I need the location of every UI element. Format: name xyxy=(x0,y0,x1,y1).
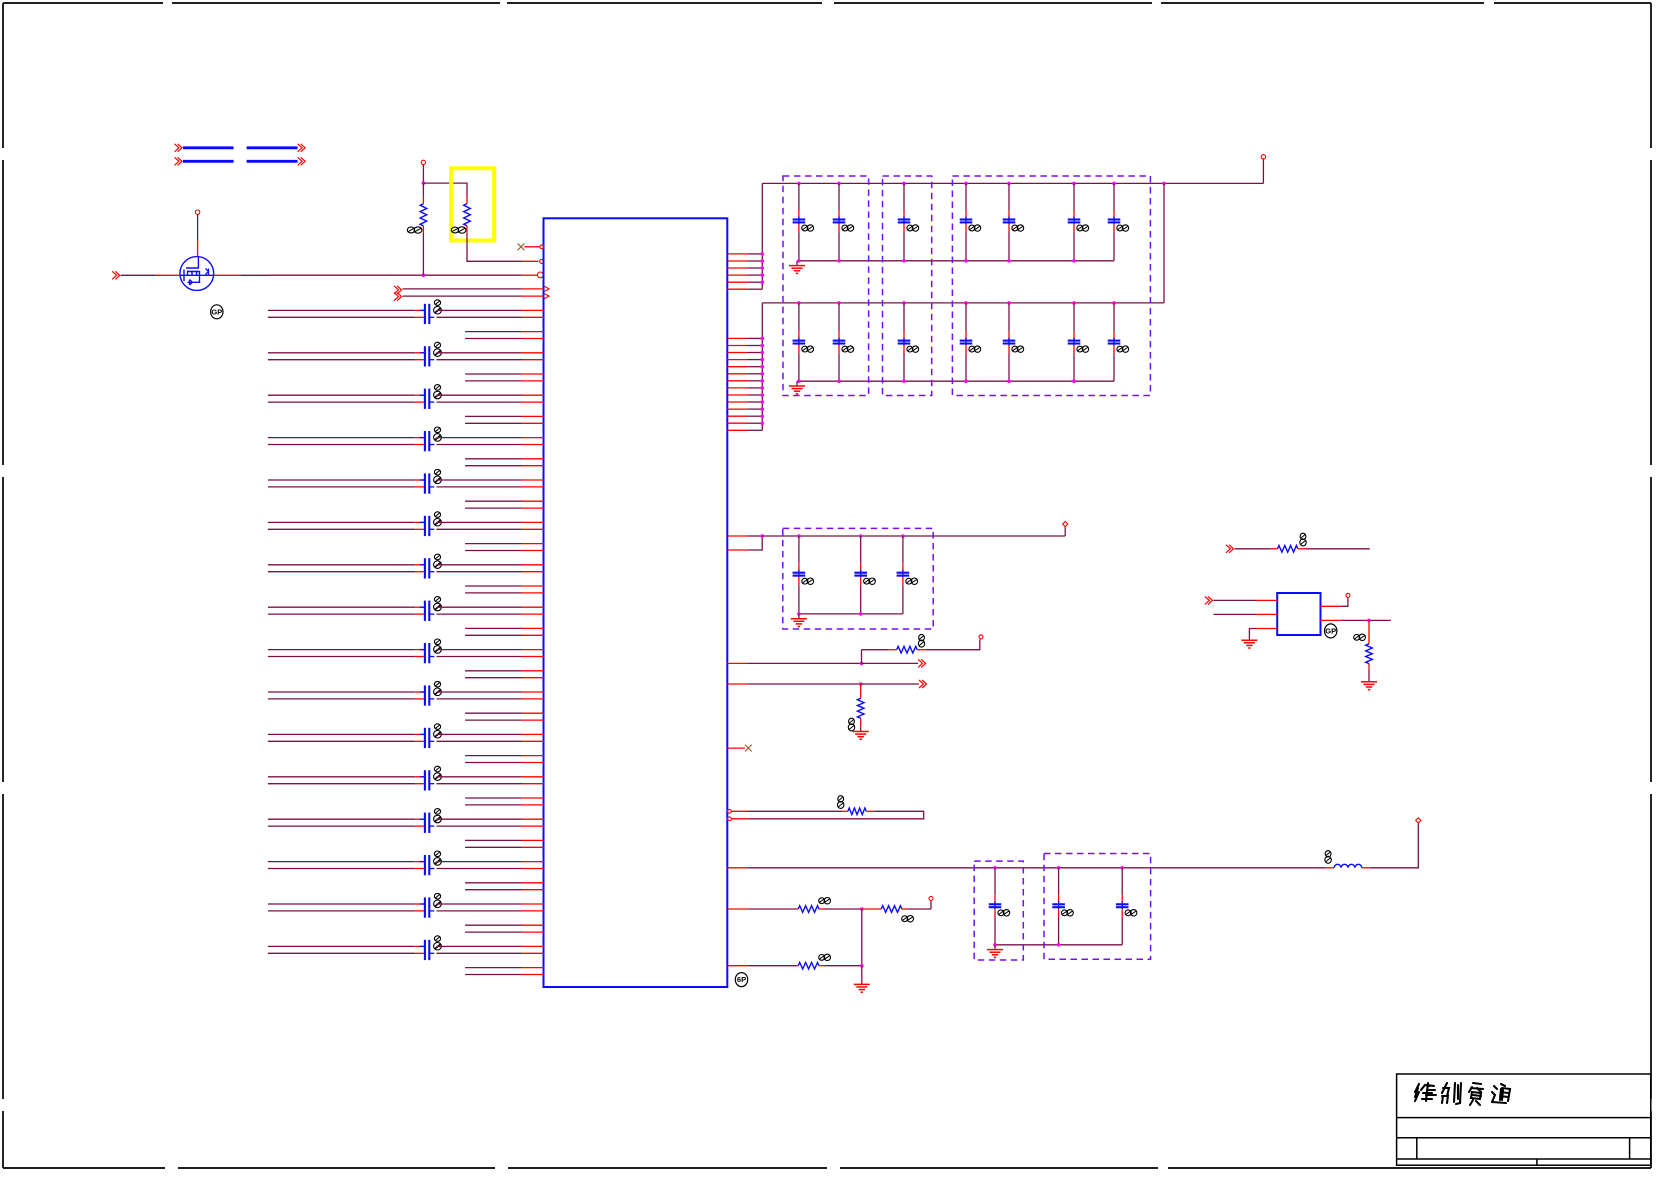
wire C11a left xyxy=(268,733,415,735)
net terminal U2 pin4 xyxy=(1346,593,1350,597)
wire C3a left xyxy=(268,394,415,396)
bus wire net B segment 1 xyxy=(183,160,234,163)
junction rail C43 xyxy=(1120,866,1124,870)
off-page arrow U2 pin1 xyxy=(1205,596,1209,604)
wire R3 to terminal xyxy=(926,639,980,649)
junction gnd rail row2 xyxy=(902,379,906,383)
bottom gnd rail xyxy=(995,944,1122,946)
junction ladder1 xyxy=(761,280,765,284)
capacitor C16 (top bank row1) xyxy=(1068,218,1081,220)
wire C8b right to IC xyxy=(437,613,522,615)
label C10 (crossed) xyxy=(434,681,440,687)
junction mid rail xyxy=(760,534,764,538)
capacitor C33 (mid bank) xyxy=(897,572,910,574)
wire into Q1 gate xyxy=(121,274,156,276)
wire C1b left xyxy=(268,316,415,318)
wire C13a right to IC xyxy=(437,818,522,820)
net terminal L1 xyxy=(1416,818,1421,823)
IC U1 main block xyxy=(544,218,728,987)
off-page arrow into Q1 gate xyxy=(112,271,116,279)
wire R2 bottom to IC pin 2 xyxy=(467,233,522,261)
IC right pin net S4 xyxy=(727,965,748,967)
label C11 (crossed) xyxy=(802,225,808,231)
wire rail2 down to C24 xyxy=(965,303,967,332)
junction gnd rail row2 xyxy=(797,379,801,383)
net terminal R3 xyxy=(979,635,983,639)
junction ladder2 xyxy=(761,358,765,362)
label C13 (crossed) xyxy=(907,225,913,231)
junction ladder2 xyxy=(761,400,765,404)
stub wire pair 13a to IC xyxy=(465,839,521,841)
label GP bottom xyxy=(735,973,747,987)
wire C10b right to IC xyxy=(437,698,522,700)
wire C7a left xyxy=(268,564,415,566)
stub wire pair 10a to IC xyxy=(465,712,521,714)
stub wire pair 7b to IC xyxy=(465,592,521,594)
capacitor C31 (mid bank) xyxy=(793,572,806,574)
junction gnd rail row1 xyxy=(837,259,841,263)
label C12 (crossed) xyxy=(842,225,848,231)
resistor R3 xyxy=(862,649,889,651)
wire C25 down to gnd rail xyxy=(1008,346,1010,354)
label C43 (crossed) xyxy=(1125,910,1131,916)
wire U2 pin3 to ground xyxy=(1256,628,1277,630)
wire C3b right to IC xyxy=(437,401,522,403)
wire rail down to C41 xyxy=(994,868,996,896)
wire C6b left xyxy=(268,528,415,530)
wire C23 down to gnd rail xyxy=(903,346,905,354)
capacitor C9 (dual coupling cap) xyxy=(424,643,426,663)
IC right pin group2-12 xyxy=(727,415,747,417)
label C33 (crossed) xyxy=(906,578,912,584)
pin bubble (IC left pin 3) xyxy=(537,272,543,278)
junction ladder2 xyxy=(761,407,765,411)
junction rail1 C11 xyxy=(797,182,801,186)
label C42 (crossed) xyxy=(1062,910,1068,916)
junction rail2 C27 xyxy=(1112,301,1116,305)
no-connect X pin (IC right) xyxy=(727,747,745,749)
label L1 (crossed) xyxy=(1325,851,1331,857)
wire rail1 down to C13 xyxy=(903,183,905,210)
wire C24 down to gnd rail xyxy=(965,346,967,354)
label C15 (crossed) xyxy=(1012,225,1018,231)
wire C14b left xyxy=(268,868,415,870)
wire C41 down xyxy=(994,909,996,917)
capacitor C24 (top bank row2) xyxy=(960,340,973,342)
wire C13b right to IC xyxy=(437,825,522,827)
wire C8a right to IC xyxy=(437,606,522,608)
IC right pin group2-10 xyxy=(727,401,747,403)
junction mid rail C33 xyxy=(901,534,905,538)
wire node T to R2 top xyxy=(423,183,467,196)
junction ladder2 xyxy=(761,393,765,397)
junction mid rail C31 xyxy=(797,534,801,538)
ground (mid bank) xyxy=(798,614,800,619)
wire C15b right to IC xyxy=(437,910,522,912)
capacitor C16 (dual coupling cap) xyxy=(424,940,426,960)
label C15 (crossed) xyxy=(434,893,440,899)
stub wire pair 15a to IC xyxy=(465,924,521,926)
wire C11 down to gnd rail xyxy=(798,224,800,232)
junction rail1 C13 xyxy=(902,182,906,186)
wire into U2 pin1 xyxy=(1213,599,1256,601)
junction ladder2 xyxy=(761,344,765,348)
junction gnd rail row1 xyxy=(1007,259,1011,263)
IC right pin group2-6 xyxy=(727,373,747,375)
wire terminal to node T xyxy=(422,165,424,184)
wire C13b left xyxy=(268,825,415,827)
wire C2a right to IC xyxy=(437,352,522,354)
capacitor C27 (top bank row2) xyxy=(1108,340,1121,342)
label R6 (crossed) xyxy=(819,898,825,904)
wire C10a right to IC xyxy=(437,691,522,693)
dashed group box A (bottom) xyxy=(974,861,1023,960)
wire C9b left xyxy=(268,656,415,658)
wire C2b right to IC xyxy=(437,359,522,361)
IC right pin group1-5 xyxy=(727,281,747,283)
wire into IC pin 5 xyxy=(403,295,522,297)
stub wire pair 11a to IC xyxy=(465,755,521,757)
wire Q1 drain to terminal xyxy=(197,214,199,240)
stub wire pair 8a to IC xyxy=(465,627,521,629)
net terminal mid rail xyxy=(1063,522,1068,527)
stub wire pair 16a to IC xyxy=(465,967,521,969)
resistor R7 xyxy=(862,908,881,910)
label C11 (crossed) xyxy=(434,724,440,730)
IC right pin group2-14 xyxy=(727,429,747,431)
capacitor C15 (dual coupling cap) xyxy=(424,897,426,917)
wire mid rail down to C32 xyxy=(860,536,862,564)
junction rail2 C24 xyxy=(964,301,968,305)
stub wire pair 13b to IC xyxy=(465,846,521,848)
ground (bottom bank) xyxy=(994,945,996,950)
label C13 (crossed) xyxy=(434,809,440,815)
mid power rail xyxy=(762,535,1065,537)
label C9 (crossed) xyxy=(434,639,440,645)
wire rail1 down to C12 xyxy=(838,183,840,210)
wire C31 down to gnd rail xyxy=(798,578,800,586)
IC right pin group2-4 xyxy=(727,359,747,361)
wire C11b right to IC xyxy=(437,740,522,742)
capacitor C4 (dual coupling cap) xyxy=(424,431,426,451)
stub wire pair 3b to IC xyxy=(465,422,521,424)
net terminal above Q1 xyxy=(195,210,199,214)
pin arrow glyph pin 5 xyxy=(545,294,550,299)
wire C16b left xyxy=(268,952,415,954)
ground rail row2 xyxy=(797,380,1114,382)
junction rail2 C22 xyxy=(837,301,841,305)
capacitor C1 (dual coupling cap) xyxy=(424,304,426,324)
capacitor C6 (dual coupling cap) xyxy=(424,516,426,536)
IC right pin group1-1 xyxy=(727,253,747,255)
bus wire net A segment 1 xyxy=(183,146,234,149)
wire C1a right to IC xyxy=(437,309,522,311)
junction gnd rail row2 xyxy=(1007,379,1011,383)
wire rail down to C43 xyxy=(1121,868,1123,896)
label C24 (crossed) xyxy=(969,346,975,352)
label R5 (crossed) xyxy=(838,796,844,802)
wire S3mid down to S4 xyxy=(861,909,863,966)
junction gnd rail row2 xyxy=(964,379,968,383)
resistor R9 xyxy=(1235,548,1272,550)
wire mid rail down to C31 xyxy=(798,536,800,564)
junction rail2 C26 xyxy=(1072,301,1076,305)
capacitor C7 (dual coupling cap) xyxy=(424,558,426,578)
junction rail2 C23 xyxy=(902,301,906,305)
label R8 (crossed) xyxy=(819,955,825,961)
wire C9a left xyxy=(268,649,415,651)
IC right pin group1-3 xyxy=(727,267,747,269)
capacitor C8 (dual coupling cap) xyxy=(424,601,426,621)
wire rail2 down to C22 xyxy=(838,303,840,332)
stub wire pair 15b to IC xyxy=(465,931,521,933)
bus wire net A segment 2 xyxy=(247,146,298,149)
junction gnd rail row2 xyxy=(837,379,841,383)
resistor R5 xyxy=(842,810,848,812)
transistor Q1 (MOSFET, circled) xyxy=(180,257,214,291)
wire R7 to terminal xyxy=(930,901,932,909)
wire loop right return xyxy=(748,811,924,819)
wire C7b right to IC xyxy=(437,571,522,573)
IC right pin power rail bottom xyxy=(727,867,747,869)
wire C15b left xyxy=(268,910,415,912)
label C3 (crossed) xyxy=(434,385,440,391)
wire S1 up to R3 xyxy=(861,650,863,664)
IC right pin mid-1 xyxy=(727,535,747,537)
wire U2 pin5 xyxy=(1321,619,1341,621)
resistor R8 xyxy=(797,965,798,967)
ground net S4 xyxy=(854,983,870,985)
wire C17 down to gnd rail xyxy=(1113,224,1115,232)
wire rail2 down to C25 xyxy=(1008,303,1010,332)
title block xyxy=(1397,1074,1651,1165)
wire R1 bottom to node R1bot xyxy=(422,233,424,275)
wire C14b right to IC xyxy=(437,868,522,870)
label C1 (crossed) xyxy=(434,300,440,306)
junction ladder2 xyxy=(761,379,765,383)
wire C43 down xyxy=(1121,909,1123,917)
stub wire pair 2a to IC xyxy=(465,373,521,375)
junction rail2 C25 xyxy=(1007,301,1011,305)
mid ground rail xyxy=(799,613,903,615)
svg-text:6P: 6P xyxy=(737,975,746,984)
dashed group box B (bottom) xyxy=(1044,854,1151,960)
label GP for U2 xyxy=(1325,624,1337,638)
wire rail2 down to C21 xyxy=(798,303,800,332)
stub wire pair 16b to IC xyxy=(465,974,521,976)
junction rail1 C12 xyxy=(837,182,841,186)
junction ladder1 xyxy=(761,266,765,270)
stub wire pair 4b to IC xyxy=(465,465,521,467)
label C22 (crossed) xyxy=(842,346,848,352)
label C8 (crossed) xyxy=(434,597,440,603)
dashed group box 1 (top bank) xyxy=(783,176,869,396)
wire rail1 down to C17 xyxy=(1113,183,1115,210)
net terminal R7 xyxy=(929,897,933,901)
capacitor C22 (top bank row2) xyxy=(833,340,846,342)
bus off-page connector net B (right arrow) xyxy=(298,157,302,165)
junction U2 pin5 net xyxy=(1367,619,1371,623)
resistor R2 (in yellow box) xyxy=(466,197,468,204)
wire C4b left xyxy=(268,444,415,446)
wire C11a right to IC xyxy=(437,733,522,735)
wire C22 down to gnd rail xyxy=(838,346,840,354)
wire rail down to C42 xyxy=(1058,868,1060,896)
junction mid rail C32 xyxy=(859,534,863,538)
IC right pin net S2 xyxy=(727,683,747,685)
label C16 (crossed) xyxy=(1077,225,1083,231)
ground (top bank row2) xyxy=(796,381,798,386)
wire C4a right to IC xyxy=(437,437,522,439)
stub wire pair 14a to IC xyxy=(465,882,521,884)
wire C14a right to IC xyxy=(437,861,522,863)
capacitor C43 (bottom bank) xyxy=(1116,903,1129,905)
wire C4a left xyxy=(268,437,415,439)
label C16 (crossed) xyxy=(434,936,440,942)
label C23 (crossed) xyxy=(907,346,913,352)
label C27 (crossed) xyxy=(1117,346,1123,352)
capacitor C13 (dual coupling cap) xyxy=(424,813,426,833)
label C4 (crossed) xyxy=(434,427,440,433)
junction rail C41 xyxy=(993,866,997,870)
label C14 (crossed) xyxy=(969,225,975,231)
no-connect X pin (IC left pin 1) xyxy=(518,243,525,250)
junction rail1 C17 xyxy=(1112,182,1116,186)
stub wire pair 5b to IC xyxy=(465,507,521,509)
wire C15 down to gnd rail xyxy=(1008,224,1010,232)
stub wire pair 12b to IC xyxy=(465,804,521,806)
label C14 (crossed) xyxy=(434,851,440,857)
wire C8b left xyxy=(268,613,415,615)
junction ladder2 xyxy=(761,414,765,418)
resistor R1 xyxy=(422,183,424,197)
junction node T xyxy=(422,181,426,185)
junction gnd rail row2 xyxy=(1072,379,1076,383)
IC right pin group2-13 xyxy=(727,422,747,424)
dashed group box (mid bank) xyxy=(783,528,933,629)
label R4 (crossed) xyxy=(849,718,855,724)
ground rail row1 xyxy=(797,260,1114,262)
wire rail2 down to C26 xyxy=(1073,303,1075,332)
company name text 緯創資通 (drawn strokes) xyxy=(1415,1083,1432,1101)
junction rail1 C16 xyxy=(1072,182,1076,186)
wire C7b left xyxy=(268,571,415,573)
wire into IC pin 4 xyxy=(403,288,522,290)
wire C2a left xyxy=(268,352,415,354)
wire C5b right to IC xyxy=(437,486,522,488)
svg-text:GP: GP xyxy=(211,307,222,316)
stub wire pair 8b to IC xyxy=(465,634,521,636)
junction gnd rail row1 xyxy=(902,259,906,263)
vertical ladder bus group1 xyxy=(761,183,763,289)
inductor L1 xyxy=(1326,867,1334,869)
junction gnd rail row1 xyxy=(1072,259,1076,263)
wire rail1 to terminal xyxy=(1262,159,1264,183)
junction ladder2 xyxy=(761,386,765,390)
ground R4 xyxy=(853,731,869,733)
capacitor C2 (dual coupling cap) xyxy=(424,346,426,366)
svg-text:GP: GP xyxy=(1325,627,1336,636)
wire C3a right to IC xyxy=(437,394,522,396)
dashed group box 2 (top bank) xyxy=(883,176,932,396)
capacitor C13 (top bank row1) xyxy=(898,218,911,220)
label C5 (crossed) xyxy=(434,469,440,475)
wire C16 down to gnd rail xyxy=(1073,224,1075,232)
wire C21 down to gnd rail xyxy=(798,346,800,354)
pin arrow glyph pin 4 xyxy=(545,286,550,291)
capacitor C12 (top bank row1) xyxy=(833,218,846,220)
capacitor C10 (dual coupling cap) xyxy=(424,685,426,705)
wire C42 down xyxy=(1058,909,1060,917)
stub wire pair 9a to IC xyxy=(465,670,521,672)
capacitor C21 (top bank row2) xyxy=(793,340,806,342)
wire mid rail down to C33 xyxy=(902,536,904,564)
ground U2 pin3 xyxy=(1241,639,1257,641)
stub wire pair 5a to IC xyxy=(465,500,521,502)
junction ladder2 xyxy=(761,365,765,369)
capacitor C42 (bottom bank) xyxy=(1052,903,1065,905)
IC right pin group2-3 xyxy=(727,352,747,354)
wire C1a left xyxy=(268,309,415,311)
capacitor C23 (top bank row2) xyxy=(898,340,911,342)
wire rail1 down to C14 xyxy=(965,183,967,210)
IC right pin group1-6 xyxy=(727,288,747,290)
label R3 (crossed) xyxy=(919,634,925,640)
capacitor C32 (mid bank) xyxy=(854,572,867,574)
wire S4 down to ground xyxy=(861,966,863,985)
wire node R1bot to IC pin xyxy=(268,274,423,276)
wire rail2 down to C27 xyxy=(1113,303,1115,332)
junction ladder2 xyxy=(761,351,765,355)
pin bubble loop top xyxy=(728,809,732,813)
stub wire pair 6b to IC xyxy=(465,550,521,552)
bus wire net B segment 2 xyxy=(247,160,298,163)
ground (top bank row1) xyxy=(796,261,798,266)
bus off-page connector net A (left arrow) xyxy=(175,144,179,152)
IC right pin group1-2 xyxy=(727,260,747,262)
junction gnd rail row1 xyxy=(964,259,968,263)
power rail row2 (rail2) xyxy=(762,302,1164,304)
label C21 (crossed) xyxy=(802,346,808,352)
wire into U2 pin2 xyxy=(1213,613,1256,615)
junction rail1 C15 xyxy=(1007,182,1011,186)
stub wire pair 14b to IC xyxy=(465,889,521,891)
junction ladder1 xyxy=(761,259,765,263)
resistor R10 (pulldown) xyxy=(1368,620,1370,643)
wire C32 down to gnd rail xyxy=(860,578,862,586)
wire C14a left xyxy=(268,861,415,863)
capacitor C17 (top bank row1) xyxy=(1108,218,1121,220)
wire C13 down to gnd rail xyxy=(903,224,905,232)
wire C9a right to IC xyxy=(437,649,522,651)
label C6 (crossed) xyxy=(434,512,440,518)
resistor R6 xyxy=(797,908,798,910)
pin bubble (IC left pin 2) xyxy=(540,259,544,263)
wire loop top xyxy=(732,810,749,812)
label R7 (crossed) xyxy=(902,916,908,922)
net terminal above R1 xyxy=(421,160,425,164)
off-page arrow net T1 xyxy=(1226,545,1230,553)
stub wire pair 4a to IC xyxy=(465,458,521,460)
wire C8a left xyxy=(268,606,415,608)
wire rail bottom middle xyxy=(995,867,1326,869)
junction ladder2 xyxy=(761,337,765,341)
ground R10 xyxy=(1361,681,1377,683)
wire C9b right to IC xyxy=(437,656,522,658)
label C25 (crossed) xyxy=(1012,346,1018,352)
wire rail1 down to C11 xyxy=(798,183,800,210)
capacitor C26 (top bank row2) xyxy=(1068,340,1081,342)
